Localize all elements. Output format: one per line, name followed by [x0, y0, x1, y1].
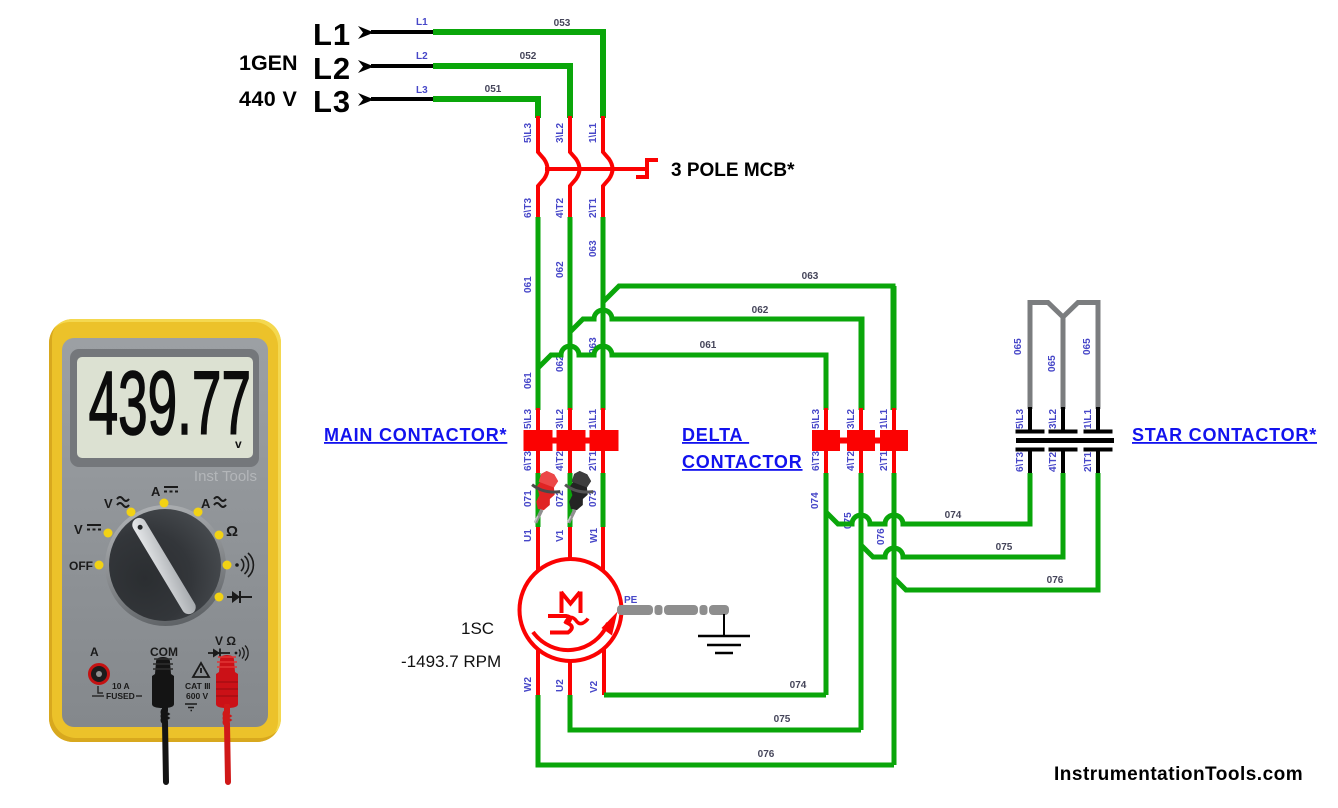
wire 053 — [416, 17, 603, 118]
wire L2 black lead — [371, 64, 433, 68]
svg-text:076: 076 — [876, 528, 887, 545]
wire delta pole2 down to U2 run — [843, 473, 861, 730]
svg-text:5\L3: 5\L3 — [811, 409, 822, 429]
node L2 terminal — [313, 51, 374, 86]
svg-text:2\T1: 2\T1 — [588, 451, 599, 471]
svg-text:W1: W1 — [589, 528, 600, 543]
contactor KM1 pole 3 — [588, 408, 619, 473]
svg-text:061: 061 — [523, 276, 534, 293]
svg-text:L1: L1 — [416, 17, 428, 28]
star point wire 065 middle — [1047, 315, 1063, 409]
wire L1 black lead — [371, 30, 433, 34]
multimeter jack A — [88, 663, 110, 685]
multimeter LCD frame — [70, 349, 259, 467]
multimeter panel — [62, 338, 268, 727]
contactor KM2 bridge — [826, 438, 894, 444]
svg-text:PE: PE — [624, 595, 638, 606]
svg-text:OFF: OFF — [69, 559, 93, 573]
multimeter dial dots — [60, 480, 270, 630]
svg-text:4\T2: 4\T2 — [555, 198, 566, 218]
breaker MCB pole 3 (1/L1-2/T1) — [588, 116, 613, 218]
svg-text:V1: V1 — [555, 529, 566, 542]
wire L3 black lead — [371, 97, 433, 101]
svg-text:440 V: 440 V — [239, 87, 297, 111]
svg-text:L3: L3 — [313, 84, 351, 119]
svg-text:5\L3: 5\L3 — [1015, 409, 1026, 429]
svg-text:MAIN CONTACTOR*: MAIN CONTACTOR* — [324, 425, 507, 445]
svg-text:3\L2: 3\L2 — [555, 123, 566, 143]
contactor KM2 pole 2 — [846, 319, 875, 473]
motor M 1SC — [520, 559, 622, 661]
svg-text:065: 065 — [1082, 338, 1093, 355]
svg-text:1GEN: 1GEN — [239, 51, 298, 75]
contactor KM2 pole 3 — [879, 286, 908, 473]
contactor KM1 pole 1 — [523, 408, 553, 473]
svg-text:InstrumentationTools.com: InstrumentationTools.com — [1054, 764, 1303, 785]
wire PE — [617, 595, 729, 615]
svg-text:DELTA: DELTA — [682, 425, 749, 445]
svg-text:061: 061 — [700, 340, 717, 351]
multimeter dial labels — [60, 470, 280, 670]
svg-text:L3: L3 — [416, 85, 428, 96]
svg-text:076: 076 — [1047, 575, 1064, 586]
wire delta pole1 down to V2 run — [810, 473, 826, 695]
wire V2 to 074 run — [589, 649, 826, 695]
continuity label — [235, 553, 253, 577]
star point wire 065 left — [1013, 303, 1063, 410]
svg-text:071: 071 — [523, 490, 534, 507]
svg-text:075: 075 — [996, 542, 1013, 553]
svg-text:-1493.7 RPM: -1493.7 RPM — [401, 652, 501, 671]
svg-text:6\T3: 6\T3 — [1015, 452, 1026, 472]
node L1 terminal — [313, 17, 374, 52]
svg-text:CAT III: CAT III — [185, 681, 210, 691]
wire 063 vertical (pole3 to main contactor) — [588, 217, 603, 410]
svg-text:074: 074 — [810, 492, 821, 509]
diode + buzz icons — [208, 646, 248, 661]
svg-text:6\T3: 6\T3 — [811, 451, 822, 471]
contactor KM3 bridge bar — [1016, 438, 1114, 443]
svg-text:074: 074 — [790, 680, 807, 691]
svg-text:FUSED: FUSED — [106, 691, 135, 701]
breaker MCB trip bar and handle — [545, 160, 658, 177]
svg-text:1\L1: 1\L1 — [588, 409, 599, 429]
svg-text:5\L3: 5\L3 — [523, 409, 534, 429]
wire 074 run to star contactor — [826, 473, 1030, 524]
svg-text:STAR CONTACTOR*: STAR CONTACTOR* — [1132, 425, 1317, 445]
svg-text:075: 075 — [774, 714, 791, 725]
wire 061 vertical (pole1 to main contactor) — [523, 217, 538, 410]
svg-text:065: 065 — [1013, 338, 1024, 355]
svg-text:1\L1: 1\L1 — [879, 409, 890, 429]
svg-text:10 A: 10 A — [112, 681, 130, 691]
contactor KM1 pole 2 — [555, 408, 586, 473]
svg-text:6\T3: 6\T3 — [523, 198, 534, 218]
svg-text:L2: L2 — [416, 51, 428, 62]
svg-text:051: 051 — [485, 84, 502, 95]
svg-text:W2: W2 — [523, 677, 534, 692]
svg-text:U1: U1 — [523, 529, 534, 542]
svg-text:4\T2: 4\T2 — [555, 451, 566, 471]
ground symbol — [698, 614, 750, 653]
svg-text:L1: L1 — [313, 17, 351, 52]
svg-text:1\L1: 1\L1 — [588, 123, 599, 143]
svg-text:063: 063 — [802, 271, 819, 282]
svg-text:3 POLE MCB*: 3 POLE MCB* — [671, 160, 795, 181]
wire 061 branch to delta contactor — [538, 340, 826, 410]
wire U2 to 075 run — [555, 661, 861, 730]
contactor KM3 pole 1 — [1015, 407, 1045, 473]
node L3 terminal — [313, 84, 374, 119]
star point wire 065 right — [1063, 303, 1098, 410]
svg-text:6\T3: 6\T3 — [523, 451, 534, 471]
wire W2 to 076 run — [523, 650, 894, 765]
wire 071 (U1) — [523, 473, 538, 573]
wire 063 branch to delta contactor — [603, 271, 893, 410]
wire 075 run to star contactor — [861, 473, 1063, 557]
multimeter V plug (red) — [209, 652, 249, 714]
multimeter LCD — [77, 357, 253, 458]
breaker MCB pole 1 (5/L3-6/T3) — [523, 116, 548, 218]
svg-text:V Ω: V Ω — [215, 634, 236, 648]
contactor KM3 pole 2 — [1048, 407, 1078, 473]
wire 073 (W1) — [588, 473, 603, 572]
svg-text:V2: V2 — [589, 680, 600, 693]
multimeter body — [49, 319, 281, 742]
svg-text:V: V — [74, 522, 83, 537]
wire delta pole3 down to W2 run — [876, 473, 894, 765]
svg-text:2\T1: 2\T1 — [588, 198, 599, 218]
svg-text:3\L2: 3\L2 — [555, 409, 566, 429]
svg-text:2\T1: 2\T1 — [1083, 452, 1094, 472]
svg-text:A: A — [151, 484, 161, 499]
wire 052 — [416, 51, 570, 118]
svg-text:063: 063 — [588, 240, 599, 257]
svg-text:2\T1: 2\T1 — [879, 451, 890, 471]
multimeter unit v — [235, 437, 242, 451]
warning triangle — [193, 663, 209, 677]
probe black clip — [559, 469, 597, 526]
contactor KM2 DELTA heading — [682, 425, 803, 472]
multimeter jack labels — [60, 630, 280, 750]
svg-text:052: 052 — [520, 51, 537, 62]
svg-text:L2: L2 — [313, 51, 351, 86]
svg-text:061: 061 — [523, 372, 534, 389]
multimeter watermark Inst Tools — [130, 468, 257, 485]
svg-text:4\T2: 4\T2 — [846, 451, 857, 471]
diode label — [227, 591, 252, 603]
svg-text:CONTACTOR: CONTACTOR — [682, 452, 803, 472]
svg-text:062: 062 — [555, 261, 566, 278]
svg-text:065: 065 — [1047, 355, 1058, 372]
svg-text:A: A — [201, 496, 211, 511]
contactor KM1 bridge — [538, 438, 603, 444]
svg-text:U2: U2 — [555, 679, 566, 692]
contactor KM2 pole 1 — [811, 355, 840, 473]
svg-text:076: 076 — [758, 749, 775, 760]
wire 051 — [416, 84, 538, 118]
svg-text:1SC: 1SC — [461, 619, 494, 638]
svg-text:V: V — [104, 496, 113, 511]
multimeter dial — [109, 509, 221, 621]
svg-text:062: 062 — [752, 305, 769, 316]
multimeter knob pointer — [129, 515, 198, 616]
multimeter dial bezel — [105, 505, 226, 626]
wire 062 branch to delta contactor — [570, 305, 862, 410]
svg-text:3\L2: 3\L2 — [846, 409, 857, 429]
svg-text:600 V: 600 V — [186, 691, 209, 701]
multimeter reading 439.77 — [74, 358, 251, 450]
svg-text:3\L2: 3\L2 — [1048, 409, 1059, 429]
svg-text:053: 053 — [554, 18, 571, 29]
breaker MCB pole 2 (3/L2-4/T2) — [555, 116, 580, 218]
svg-text:074: 074 — [945, 510, 962, 521]
svg-text:4\T2: 4\T2 — [1048, 452, 1059, 472]
svg-text:5\L3: 5\L3 — [523, 123, 534, 143]
probe red clip — [526, 469, 564, 526]
wire 062 vertical (pole2 to main contactor) — [555, 217, 570, 410]
wire 076 run to star contactor — [894, 473, 1098, 590]
svg-text:1\L1: 1\L1 — [1083, 409, 1094, 429]
svg-text:A: A — [90, 645, 99, 659]
svg-text:Ω: Ω — [226, 523, 238, 540]
wire 072 (V1) — [555, 473, 570, 561]
contactor KM3 pole 3 — [1083, 407, 1113, 473]
multimeter COM plug — [146, 654, 186, 714]
multimeter probe leads — [140, 704, 260, 794]
